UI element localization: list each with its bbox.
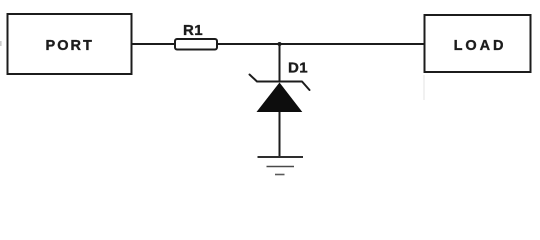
zener diode D1	[250, 60, 310, 113]
crop artifact tick at left edge	[0, 41, 2, 46]
faint artifact line under LOAD	[423, 75, 425, 100]
wire node to D1	[279, 44, 281, 82]
PORT block	[8, 14, 132, 74]
ground	[258, 157, 304, 175]
LOAD block	[425, 15, 531, 72]
svg-text:R1: R1	[183, 22, 203, 39]
svg-text:PORT: PORT	[46, 38, 94, 54]
resistor R1	[175, 22, 217, 50]
svg-text:D1: D1	[288, 60, 308, 77]
wire R1 to LOAD	[217, 43, 424, 45]
wire D1 to ground	[279, 112, 281, 157]
wire PORT to R1	[133, 43, 176, 45]
svg-text:LOAD: LOAD	[454, 38, 507, 54]
node junction dot	[278, 42, 282, 46]
